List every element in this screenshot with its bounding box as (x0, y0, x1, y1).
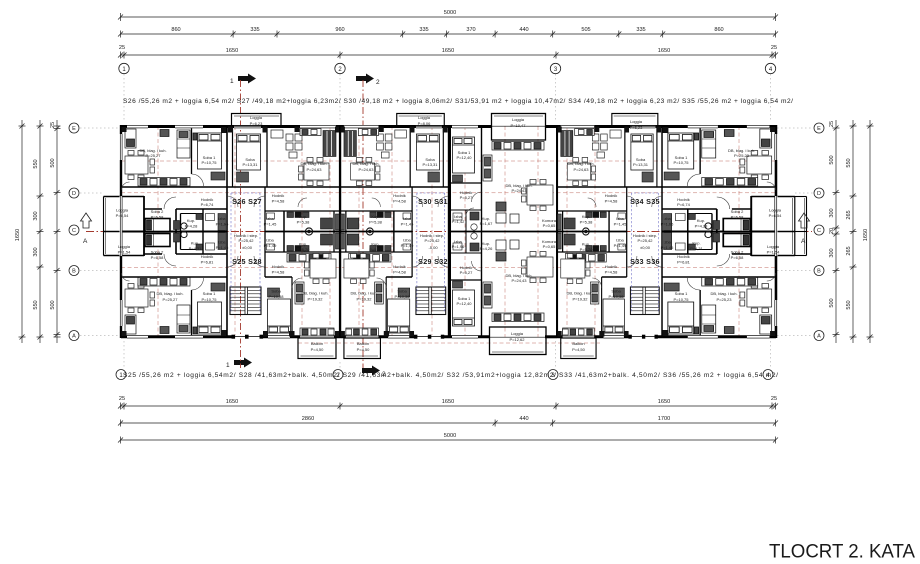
svg-text:860: 860 (171, 27, 180, 33)
svg-text:300: 300 (33, 211, 39, 220)
svg-text:Balkon: Balkon (311, 341, 323, 346)
svg-text:±0,00: ±0,00 (640, 245, 651, 250)
right dim chain 550/265/265/550 (852, 120, 854, 343)
dimension line 25/1650/1650/1650/25 (121, 54, 776, 56)
svg-text:P=10,75: P=10,75 (201, 297, 217, 302)
svg-text:Izba: Izba (403, 238, 411, 243)
svg-text:Kup.: Kup. (371, 242, 379, 247)
svg-text:P=1,45: P=1,45 (661, 245, 675, 250)
dimension line 5000 top (121, 16, 776, 18)
svg-text:550: 550 (846, 300, 852, 309)
svg-text:P=5,38: P=5,38 (297, 220, 311, 225)
svg-text:DB, blag. i kuh.: DB, blag. i kuh. (566, 291, 593, 296)
svg-text:Loggia: Loggia (512, 117, 525, 122)
svg-text:P=24,63: P=24,63 (573, 167, 589, 172)
svg-text:Hodnik: Hodnik (393, 264, 405, 269)
svg-text:1650: 1650 (658, 399, 670, 405)
svg-text:Hodnik: Hodnik (605, 264, 617, 269)
svg-text:25: 25 (119, 45, 125, 51)
apartment S25 labels (156, 291, 217, 302)
svg-text:550: 550 (33, 300, 39, 309)
svg-text:Hodnik: Hodnik (272, 264, 284, 269)
section cut line 1 red (240, 80, 242, 368)
svg-text:505: 505 (581, 27, 590, 33)
svg-text:Loggia: Loggia (116, 208, 129, 213)
svg-text:P=6,23: P=6,23 (250, 121, 264, 126)
svg-text:P=4,58: P=4,58 (605, 270, 619, 275)
apartment S29 labels (350, 115, 431, 352)
dimension line 2860/440/1700 (121, 422, 776, 424)
svg-text:P=13,31: P=13,31 (422, 162, 438, 167)
S30/S29 + core2 (mirror about x=340) (340, 114, 448, 359)
svg-text:Soba: Soba (271, 289, 281, 294)
svg-text:S30 S31: S30 S31 (418, 197, 448, 206)
section arrow 1 bottom (226, 358, 252, 370)
svg-text:P=1,45: P=1,45 (264, 222, 278, 227)
grid bubbles right E D C B A (814, 123, 824, 341)
svg-text:P=5,38: P=5,38 (580, 220, 594, 225)
loggia S35/S36 labels (767, 208, 783, 255)
svg-text:D: D (817, 191, 821, 197)
svg-text:B: B (72, 269, 76, 275)
svg-text:P=19,32: P=19,32 (572, 297, 588, 302)
svg-text:Balkon: Balkon (357, 341, 369, 346)
svg-text:1650: 1650 (226, 399, 238, 405)
section arrow A right (799, 213, 810, 245)
svg-text:A: A (817, 334, 821, 340)
svg-text:Loggia: Loggia (630, 119, 643, 124)
svg-text:P=24,63: P=24,63 (358, 167, 374, 172)
svg-text:Hodnik: Hodnik (393, 193, 405, 198)
svg-text:Soba: Soba (397, 289, 407, 294)
svg-text:335: 335 (250, 27, 259, 33)
right loggia extension (794, 197, 807, 256)
core1 + S27/S28 (227, 114, 340, 359)
svg-text:Izba: Izba (616, 216, 624, 221)
svg-text:P=6,74: P=6,74 (201, 202, 215, 207)
svg-text:P=12,40: P=12,40 (456, 155, 472, 160)
loggia S26/S25 labels (116, 208, 132, 255)
svg-text:A: A (72, 334, 76, 340)
section cut line 2 red (362, 80, 364, 368)
apartment S32 labels (456, 218, 556, 342)
grid bubbles top 1 2 3 4 (119, 63, 776, 73)
svg-text:Loggia: Loggia (769, 208, 782, 213)
svg-text:1650: 1650 (15, 229, 21, 241)
svg-text:P=4,28: P=4,28 (185, 224, 199, 229)
svg-text:P=19,32: P=19,32 (356, 297, 372, 302)
grid dotted leaders (124, 74, 771, 369)
svg-text:P=19,32: P=19,32 (307, 297, 323, 302)
svg-text:300: 300 (33, 247, 39, 256)
dimension line 5000 bottom (121, 439, 776, 441)
svg-text:25: 25 (119, 396, 125, 402)
svg-text:P=10,38: P=10,38 (608, 294, 624, 299)
svg-text:P=4,58: P=4,58 (272, 270, 286, 275)
section arrow A left (81, 213, 92, 245)
svg-text:P=12,40: P=12,40 (456, 301, 472, 306)
svg-text:P=4,58: P=4,58 (393, 270, 407, 275)
svg-text:P=4,26: P=4,26 (480, 246, 494, 251)
svg-text:Izba: Izba (663, 240, 671, 245)
svg-text:P=13,31: P=13,31 (242, 162, 258, 167)
core2 labels (418, 197, 448, 266)
svg-text:Kup.: Kup. (187, 218, 195, 223)
svg-text:P=13,31: P=13,31 (633, 162, 649, 167)
svg-text:DB, blag. i kuh.: DB, blag. i kuh. (156, 291, 183, 296)
svg-text:25: 25 (771, 396, 777, 402)
svg-text:1700: 1700 (658, 416, 670, 422)
svg-text:P=6,54: P=6,54 (116, 213, 130, 218)
svg-text:Loggia: Loggia (250, 115, 263, 120)
svg-text:550: 550 (846, 158, 852, 167)
svg-text:P=25,23: P=25,23 (734, 153, 750, 158)
svg-text:E: E (817, 126, 821, 132)
svg-text:1650: 1650 (226, 48, 238, 54)
svg-text:Kup.: Kup. (191, 241, 199, 246)
section arrow 1 top (230, 74, 256, 86)
svg-text:Hodnik: Hodnik (605, 193, 617, 198)
svg-text:P=25,27: P=25,27 (145, 153, 161, 158)
svg-text:1650: 1650 (658, 48, 670, 54)
svg-text:Soba 1: Soba 1 (675, 291, 688, 296)
svg-text:P=1,45: P=1,45 (401, 222, 415, 227)
right dim chain 1650 (869, 120, 871, 343)
svg-text:P=10,38: P=10,38 (394, 294, 410, 299)
svg-text:2: 2 (376, 79, 380, 86)
svg-text:P=4,58: P=4,58 (272, 199, 286, 204)
end unit S26/S25 left (104, 125, 228, 338)
svg-text:P=4,50: P=4,50 (572, 347, 586, 352)
svg-text:P=24,63: P=24,63 (306, 167, 322, 172)
svg-text:Izba: Izba (663, 216, 671, 221)
svg-text:A: A (83, 238, 88, 245)
svg-text:P=1,49: P=1,49 (401, 243, 415, 248)
svg-text:Izba: Izba (218, 240, 226, 245)
core1 labels (232, 197, 262, 266)
svg-text:P=4,31: P=4,31 (690, 246, 704, 251)
svg-text:P=5,27: P=5,27 (460, 270, 474, 275)
svg-text:P=12,62: P=12,62 (509, 337, 525, 342)
apartment S28 labels (250, 115, 329, 352)
svg-text:Soba 2: Soba 2 (151, 209, 164, 214)
svg-text:25: 25 (50, 122, 56, 128)
svg-text:P=10,75: P=10,75 (201, 160, 217, 165)
svg-text:Izba: Izba (403, 216, 411, 221)
dimension line segments 860/335/960/335/370/440/505/335/860 (121, 33, 776, 35)
svg-text:P=5,70: P=5,70 (369, 247, 383, 252)
svg-text:P=1,49: P=1,49 (614, 243, 628, 248)
svg-text:2860: 2860 (302, 416, 314, 422)
svg-text:1650: 1650 (442, 399, 454, 405)
svg-text:S25 S28: S25 S28 (232, 257, 262, 266)
svg-text:S33 S36: S33 S36 (630, 257, 660, 266)
svg-text:440: 440 (519, 27, 528, 33)
svg-text:P=5,70: P=5,70 (297, 247, 311, 252)
apartment S33 labels (566, 119, 643, 352)
svg-text:P=4,31: P=4,31 (189, 246, 203, 251)
svg-text:DB, blag. i kuh.: DB, blag. i kuh. (350, 291, 377, 296)
svg-text:Kup.: Kup. (371, 214, 379, 219)
apartment S26 labels (139, 148, 229, 265)
top dim labels (119, 10, 777, 54)
end unit S35/S36 right (mirror) (662, 125, 795, 338)
svg-text:P=1,42: P=1,42 (452, 219, 466, 224)
svg-text:Hodnik: Hodnik (272, 193, 284, 198)
svg-text:P=4,58: P=4,58 (605, 199, 619, 204)
svg-text:5000: 5000 (444, 10, 456, 16)
svg-text:Loggia: Loggia (118, 244, 131, 249)
svg-text:A: A (801, 238, 806, 245)
svg-text:P=5,70: P=5,70 (580, 247, 594, 252)
svg-text:370: 370 (466, 27, 475, 33)
svg-text:P=5,38: P=5,38 (369, 220, 383, 225)
svg-text:Izba: Izba (266, 238, 274, 243)
svg-text:265: 265 (846, 210, 852, 219)
svg-text:S25 /55,26 m2 + loggia 6,54m2/: S25 /55,26 m2 + loggia 6,54m2/ S28 /41,6… (123, 372, 778, 379)
svg-text:265: 265 (846, 246, 852, 255)
svg-text:P=5,27: P=5,27 (460, 195, 474, 200)
svg-text:Izba: Izba (218, 216, 226, 221)
svg-text:P=25,42: P=25,42 (238, 238, 254, 243)
svg-text:860: 860 (714, 27, 723, 33)
svg-text:1: 1 (230, 78, 234, 85)
svg-text:Loggia: Loggia (511, 331, 524, 336)
apartment S35 labels (661, 148, 755, 265)
svg-text:20: 20 (829, 228, 835, 234)
balkon axis red line (298, 342, 600, 344)
svg-text:335: 335 (636, 27, 645, 33)
svg-text:1650: 1650 (442, 48, 454, 54)
svg-text:Soba: Soba (611, 289, 621, 294)
svg-text:P=4,28: P=4,28 (695, 224, 709, 229)
svg-text:P=0,65: P=0,65 (543, 244, 557, 249)
svg-text:P=1,54: P=1,54 (118, 250, 132, 255)
svg-text:335: 335 (419, 27, 428, 33)
svg-text:Soba 1: Soba 1 (203, 291, 216, 296)
S34/S33 + core3 (mirror about x=448.5) (557, 114, 662, 359)
svg-text:500: 500 (50, 158, 56, 167)
svg-text:S26 S27: S26 S27 (232, 197, 262, 206)
svg-text:P=24,43: P=24,43 (511, 188, 527, 193)
right dim chain 500/300/300/500 (835, 120, 837, 343)
svg-text:DB, blag. i kuh.: DB, blag. i kuh. (352, 161, 379, 166)
svg-text:P=1,54: P=1,54 (767, 250, 781, 255)
svg-text:P=4,50: P=4,50 (311, 347, 325, 352)
svg-text:P=6,74: P=6,74 (677, 202, 691, 207)
room labels overlay (116, 115, 783, 352)
core3 labels (630, 197, 660, 266)
svg-text:Kup.: Kup. (582, 242, 590, 247)
svg-text:Kup.: Kup. (299, 214, 307, 219)
svg-text:C: C (817, 228, 821, 234)
svg-text:DB, blag. i kuh.: DB, blag. i kuh. (301, 291, 328, 296)
svg-text:500: 500 (829, 155, 835, 164)
svg-text:P=1,45: P=1,45 (614, 222, 628, 227)
horizontal axis red lines (121, 161, 776, 268)
apartment S36 labels (673, 291, 737, 302)
svg-text:P=25,27: P=25,27 (162, 297, 178, 302)
svg-text:Hodnik: Hodnik (677, 254, 689, 259)
svg-text:P=25,42: P=25,42 (637, 238, 653, 243)
svg-text:P=4,50: P=4,50 (357, 347, 371, 352)
grid bubbles left E D C B A (69, 123, 79, 341)
svg-text:300: 300 (829, 208, 835, 217)
svg-text:P=10,47: P=10,47 (510, 123, 526, 128)
svg-text:Izba: Izba (266, 216, 274, 221)
svg-text:P=4,58: P=4,58 (393, 199, 407, 204)
svg-text:Balkon: Balkon (572, 341, 584, 346)
svg-text:P=6,58: P=6,58 (731, 215, 745, 220)
svg-text:500: 500 (50, 300, 56, 309)
svg-text:1650: 1650 (863, 229, 869, 241)
svg-text:P=6,54: P=6,54 (769, 213, 783, 218)
svg-text:DB, blag. i kuh.: DB, blag. i kuh. (567, 161, 594, 166)
svg-text:P=1,49: P=1,49 (264, 243, 278, 248)
svg-text:Loggia: Loggia (767, 244, 780, 249)
svg-text:P=6,58: P=6,58 (731, 255, 745, 260)
apartment S34 labels (567, 157, 648, 252)
svg-text:P=1,65: P=1,65 (216, 222, 230, 227)
svg-text:B: B (817, 269, 821, 275)
left dim chain 500/300/300/500 (56, 120, 58, 343)
apartment S31 labels (452, 117, 533, 251)
svg-text:P=10,75: P=10,75 (673, 160, 689, 165)
svg-text:Soba 2: Soba 2 (151, 250, 164, 255)
svg-text:Kup.: Kup. (582, 214, 590, 219)
svg-text:Soba 2: Soba 2 (731, 250, 744, 255)
svg-text:P=25,23: P=25,23 (716, 297, 732, 302)
svg-text:Kup.: Kup. (299, 242, 307, 247)
svg-text:P=10,38: P=10,38 (268, 294, 284, 299)
svg-text:DB, blag. i kuh.: DB, blag. i kuh. (300, 161, 327, 166)
svg-text:P=8,06: P=8,06 (418, 121, 432, 126)
apartment S30 labels (352, 157, 438, 252)
svg-text:1: 1 (226, 362, 230, 369)
svg-text:P=1,65: P=1,65 (661, 222, 675, 227)
svg-text:P=24,43: P=24,43 (511, 278, 527, 283)
svg-text:TLOCRT 2. KATA: TLOCRT 2. KATA (769, 541, 916, 563)
svg-text:25: 25 (829, 121, 835, 127)
svg-text:C: C (72, 228, 76, 234)
structural axis red lines (158, 126, 739, 337)
svg-text:550: 550 (33, 159, 39, 168)
left dim chain 1650 (21, 120, 23, 343)
left dim chain 550/300/300/550 (39, 120, 41, 343)
svg-text:440: 440 (519, 416, 528, 422)
section arrow 2 bottom (362, 366, 386, 379)
svg-text:Soba 2: Soba 2 (731, 209, 744, 214)
svg-text:P=6,58: P=6,58 (151, 215, 165, 220)
svg-text:P=1,45: P=1,45 (216, 245, 230, 250)
section arrow 2 top (356, 74, 380, 87)
center axis red line (86, 231, 812, 233)
dimension line 25/1650/1650/1650/25 bottom (121, 405, 776, 407)
svg-text:Izba: Izba (616, 238, 624, 243)
svg-text:960: 960 (335, 27, 344, 33)
svg-text:300: 300 (829, 248, 835, 257)
svg-text:P=6,81: P=6,81 (677, 260, 691, 265)
svg-text:Kup.: Kup. (692, 241, 700, 246)
svg-text:Loggia: Loggia (418, 115, 431, 120)
svg-text:-5,00: -5,00 (428, 245, 438, 250)
svg-text:S34 S35: S34 S35 (630, 197, 660, 206)
apartment S27 labels (242, 157, 327, 252)
svg-text:P=25,42: P=25,42 (424, 238, 440, 243)
svg-text:P=1,96: P=1,96 (452, 244, 466, 249)
svg-text:E: E (72, 126, 76, 132)
svg-text:P=6,58: P=6,58 (151, 255, 165, 260)
center module S31/S32 (449, 114, 558, 355)
svg-text:5000: 5000 (444, 433, 456, 439)
svg-text:Kup.: Kup. (697, 218, 705, 223)
svg-text:D: D (72, 191, 76, 197)
svg-text:P=6,23: P=6,23 (630, 125, 644, 130)
svg-text:P=0,65: P=0,65 (543, 223, 557, 228)
svg-text:±0,00: ±0,00 (242, 245, 253, 250)
svg-text:500: 500 (829, 298, 835, 307)
svg-text:P=6,81: P=6,81 (201, 260, 215, 265)
svg-text:P=1,67: P=1,67 (480, 221, 494, 226)
svg-text:DB, blag. i kuh.: DB, blag. i kuh. (710, 291, 737, 296)
svg-text:25: 25 (771, 45, 777, 51)
svg-text:S29 S32: S29 S32 (418, 257, 448, 266)
bottom grid bubbles (116, 370, 773, 380)
svg-text:P=10,75: P=10,75 (673, 297, 689, 302)
svg-text:Hodnik: Hodnik (201, 254, 213, 259)
svg-text:S26 /55,26 m2 + loggia 6,54 m2: S26 /55,26 m2 + loggia 6,54 m2/ S27 /49,… (123, 98, 793, 105)
